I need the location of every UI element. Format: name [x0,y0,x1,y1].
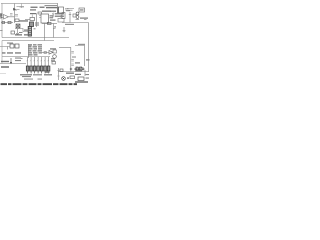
arrow down node left [10,58,12,64]
label right top [80,18,88,19]
input stubs left [0,14,3,31]
wire right mid line [59,47,71,49]
capacitor bank CB1 [26,66,50,71]
label x24 y29 [24,30,30,31]
resistor ticks on x28 vertical [29,46,32,49]
wire top right rail [62,22,89,24]
transistor Q2 cluster [16,24,20,28]
ticks on x58 vertical [57,71,59,77]
box S1b below [58,19,64,23]
lamp L1 circle-x [62,77,66,81]
resistor R7 on line [48,22,52,24]
wire right jacks drop [69,12,71,23]
caption text [1,83,78,85]
label near P1/S2 [30,13,37,14]
label x2 y59 [1,61,9,62]
box above bank [52,62,56,65]
label near U2 [42,11,51,12]
label inside box U4 [80,9,84,10]
wire vertical x44 [44,24,46,41]
transistor Q1 vertical [14,4,16,24]
wire vertical x36 [36,14,38,27]
wire horizontal bus C y56 [2,56,50,58]
selector contact circles [53,13,55,15]
wire horizontal bus B y41 [2,40,54,42]
dual box DB1 left mid [10,44,14,48]
wire bank bottom stubs [28,71,49,73]
resistor R11 marks [76,19,87,21]
node junction x14 y10 [15,9,18,11]
wire into P1 [25,19,30,21]
wire vertical x28.5 [28,44,30,58]
resistor ticks right of S1 [65,9,69,11]
wire P1 top stub [31,15,33,18]
labels x15 y57-62 [15,58,21,59]
wire horizontal bus D y63 [0,63,26,65]
resistor R4 row [1,22,13,24]
small box X1 [11,31,15,34]
resistor R3 ticks [17,7,20,10]
label x2 y52 [2,52,6,53]
transistor Q1 body [13,8,16,11]
wire x85 vertical bottom [84,70,86,76]
wire op-amp inputs [1,15,14,17]
op-amp U1 [4,15,9,20]
wire bottom right bus [58,71,89,73]
capacitor C10 [71,64,74,66]
label x75 y81 [75,81,88,82]
label under right bus [65,24,74,25]
text smudges [1,5,90,83]
capacitor C9 [71,60,74,62]
input terminal IN2 [0,17,1,18]
flag mark on x53 [54,26,56,27]
box BR bottom left of right bus [60,69,63,72]
mark above connector [34,28,36,29]
wire vertical x53 [53,24,56,38]
speaker SP1 circle [53,55,57,59]
selector switch S1 box [58,7,64,13]
ground G1 [16,29,19,34]
wire U2 bottom [42,23,57,25]
node circle N5 [70,68,72,70]
frame power top [75,46,85,67]
box T1 [70,76,75,79]
label x19 y20 [19,20,28,21]
label x51 y58 rows [51,58,55,59]
label top title [31,7,38,8]
label x50 y48 [50,48,56,49]
label x66 y10 [66,10,70,11]
IC U2 box [41,14,49,23]
resistor R5 box [15,19,19,22]
label selector rows [50,11,56,12]
jack circles right [76,12,79,15]
bank arrows [27,60,49,61]
potentiometer P1 box [30,18,35,21]
capacitor C2 [15,15,18,17]
box U4 top right [79,8,85,12]
label x86 y59 [86,59,90,60]
label right of IC U2 [50,15,54,16]
label block rows [28,44,42,55]
resistor R10 ticks [67,9,74,11]
amp A2 triangle [49,51,53,55]
wire into DB1 [0,47,10,50]
wire stubs into box U5 [61,14,63,18]
rectifier cluster [76,68,84,71]
label top-left ticks [20,6,25,7]
label x20 y74 [20,74,32,75]
label right bottom rows [75,68,78,70]
input terminal IN1 [0,14,1,15]
connector J1 strip [28,27,31,37]
label x1 y66 [1,66,9,67]
ground G2 top [63,27,66,32]
cluster right of bank [45,71,50,73]
wire left mid vertical [1,41,3,64]
bank wires vertical [28,57,49,66]
tick on x70 vertical [69,14,71,16]
label x20 y78 [24,79,33,80]
box A2 load [53,50,57,53]
U2 left pin ticks [39,16,41,18]
box T2 [78,77,84,81]
label x15 y34 [15,34,22,35]
label above DB1 [7,43,13,44]
wire top supply bus [1,3,58,5]
wire x58 vertical bottom [58,68,60,80]
label under second rail [45,5,58,6]
wire into A2 [42,52,49,54]
capacitor C1 marks [10,14,13,16]
capacitor C8 [71,52,74,54]
wire left border [1,4,3,38]
switch S2 dark box [30,22,34,27]
wire q2 out [15,29,30,32]
small box x73 [73,14,76,17]
faint mark bottom left [0,72,6,74]
stub from top bus x21 [21,4,23,9]
resistor on A2 wire [44,52,47,54]
wire selector drop [57,4,59,8]
wire horizontal bus A y38 [2,37,69,39]
wire vertical x70 down [70,48,72,72]
wire right border [88,23,90,73]
mark between lamp and T1 [67,77,69,79]
box mid right x62 [62,13,65,19]
box U3 small top [38,12,42,14]
